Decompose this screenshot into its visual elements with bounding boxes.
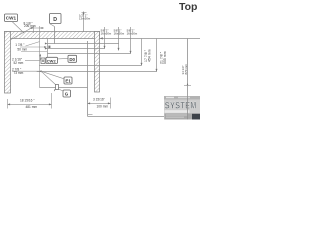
left dim text C (12, 68, 24, 76)
leader D (50, 24, 55, 27)
leader G (59, 89, 64, 91)
svg-text:100 mm: 100 mm (97, 105, 109, 109)
label E1 (64, 77, 72, 84)
small square symbol (41, 58, 45, 64)
pipe y48.4 (48, 48, 105, 50)
vert V1 (104, 27, 106, 49)
svg-text:G: G (65, 92, 69, 97)
vertical ref x39 (39, 26, 41, 88)
vert V4 (141, 39, 143, 66)
vert V3 (130, 27, 132, 54)
svg-text:1 7/8 '': 1 7/8 '' (15, 43, 25, 47)
logo watermark (164, 96, 200, 120)
bottom dim 18 15/16 (8, 93, 52, 109)
svg-text:50m: 50m (119, 32, 125, 36)
label CW1 (5, 14, 18, 22)
top mini dim texts at V2 (114, 28, 125, 35)
leader CW2 to D0 (58, 57, 69, 60)
svg-text:206 mm: 206 mm (24, 24, 36, 28)
wall left strip (5, 32, 11, 94)
wall right strip (95, 32, 100, 93)
svg-text:D: D (53, 17, 57, 23)
label G (63, 90, 71, 97)
rotated dim R1 (144, 49, 152, 62)
vert V2 (118, 27, 120, 51)
vert V5 (156, 39, 158, 72)
wall top strip (5, 32, 100, 39)
rotated dim R2 (160, 51, 168, 64)
left dim text A (15, 43, 27, 51)
dim 8 1/8 text (24, 21, 36, 28)
svg-text:50m: 50m (106, 32, 112, 36)
pipe y43.8 (48, 43, 119, 45)
dim 8 1/8 line (30, 26, 45, 33)
pipe y53 (48, 53, 131, 55)
pipe y65.5 (39, 65, 141, 67)
svg-text:50m: 50m (85, 17, 91, 21)
svg-text:52 mm: 52 mm (14, 61, 24, 65)
leader B (25, 54, 41, 61)
svg-text:50m: 50m (132, 32, 138, 36)
leader E1 (41, 71, 64, 79)
svg-text:Top: Top (179, 1, 197, 13)
horizontal ref y87.3 (40, 87, 88, 89)
mini dim above wall x84 (79, 12, 91, 33)
svg-text:E1: E1 (65, 79, 71, 84)
svg-text:CW2: CW2 (47, 58, 57, 63)
top mini dim texts at V3 (127, 28, 138, 35)
drain line y116 (88, 115, 188, 117)
junction arrow (39, 70, 42, 72)
bottom dim 3 15/16 (88, 98, 111, 109)
svg-text:50 mm: 50 mm (17, 47, 27, 51)
svg-text:73 mm: 73 mm (14, 71, 24, 75)
arrows on x47 (45, 43, 48, 45)
svg-text:D0: D0 (69, 57, 75, 62)
tick near corner (88, 113, 93, 115)
svg-text:18 15/16 '': 18 15/16 '' (20, 99, 35, 103)
leader valve (41, 71, 56, 85)
leader CW1 (12, 22, 24, 34)
label D0 (68, 55, 77, 62)
vert V6 (184, 39, 191, 120)
svg-text:481 mm: 481 mm (26, 105, 38, 109)
rotated dim R3 (181, 63, 188, 74)
svg-text:3 15/16'': 3 15/16'' (93, 98, 105, 102)
svg-text:555 mm: 555 mm (163, 51, 167, 64)
label CW2 (46, 57, 58, 63)
leader A (20, 42, 50, 52)
svg-text:CW1: CW1 (6, 16, 17, 21)
top mini dim texts at V1 (101, 28, 112, 35)
left dim text B (12, 57, 24, 65)
label D (50, 14, 62, 24)
baseline right of wall (100, 38, 201, 40)
vertical ext x47 (47, 39, 49, 58)
vertical ref x87.5 (87, 41, 89, 116)
pipe y71.2 (37, 71, 157, 73)
svg-text:SYSTEM: SYSTEM (165, 100, 197, 111)
valve symbol (54, 85, 59, 92)
leader to corner (11, 27, 34, 40)
leader C (12, 70, 39, 72)
svg-text:454 mm: 454 mm (147, 49, 151, 62)
